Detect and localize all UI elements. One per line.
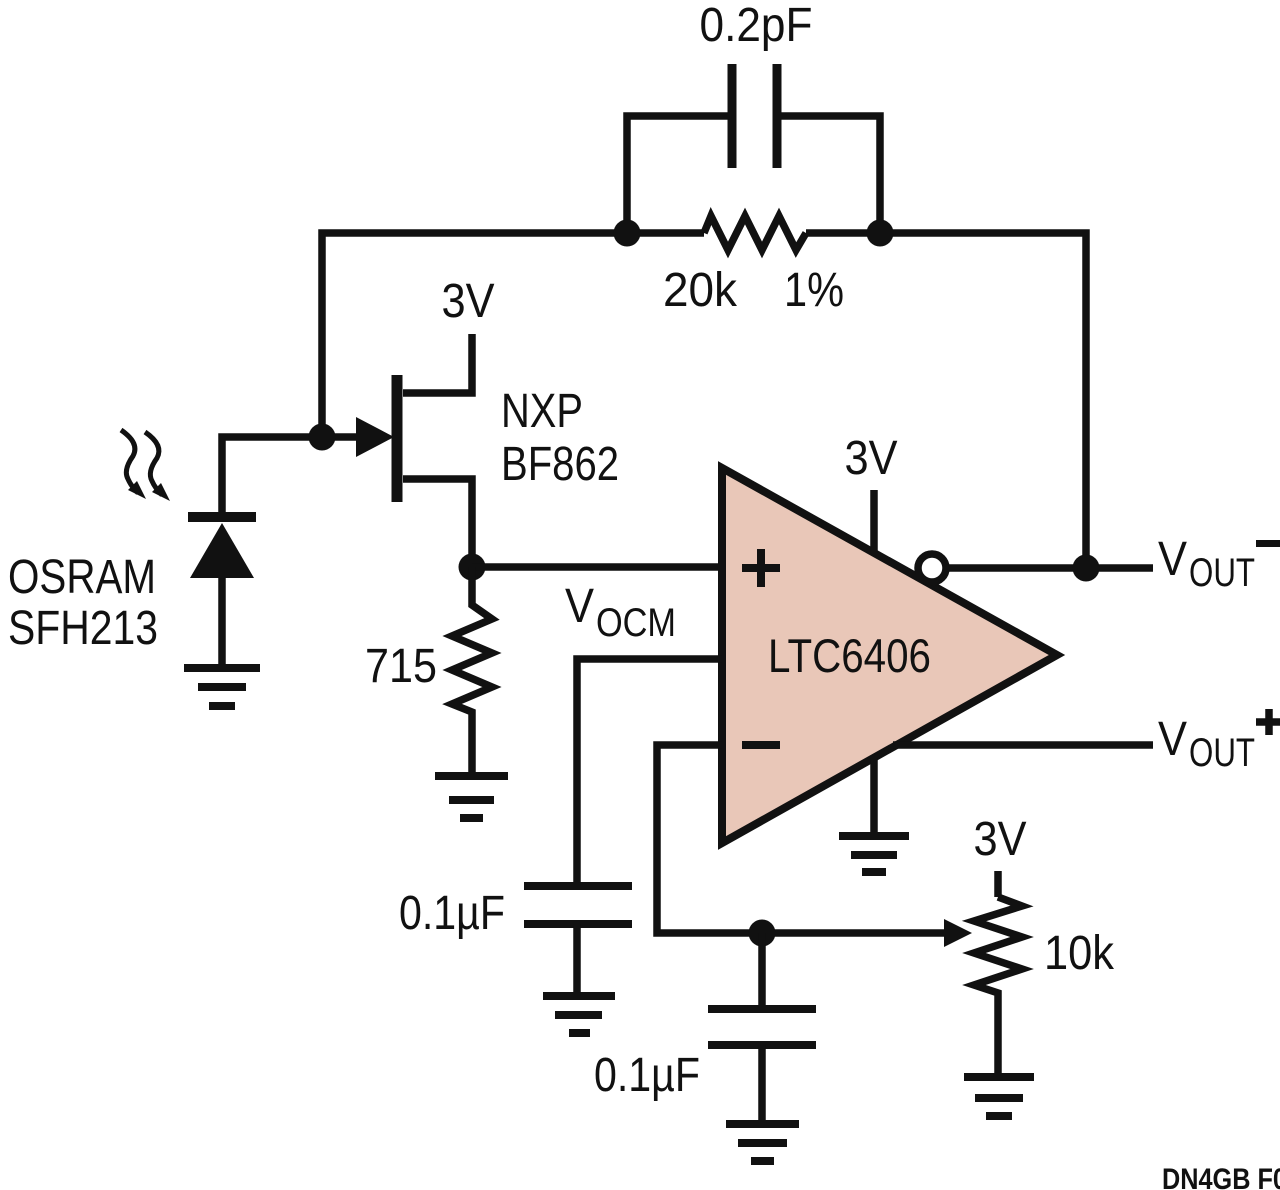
svg-text:DN4GB F03: DN4GB F03 <box>1162 1163 1280 1190</box>
op-amp plus input symbol <box>742 549 780 587</box>
node minus-rail junction dot <box>749 920 776 947</box>
wire 3V to op-amp top <box>870 490 878 553</box>
light arrows into photodiode <box>121 430 162 495</box>
svg-text:V: V <box>1158 713 1187 766</box>
photodiode D1 cathode bar <box>188 512 256 522</box>
op-amp U1 LTC6406 triangle <box>722 468 1057 843</box>
wire 3V to potentiometer <box>994 871 1002 897</box>
node A junction dot left of 20k <box>614 220 641 247</box>
wire feedback loop: gate node up, across top, down to output node <box>322 233 704 437</box>
svg-text:OCM: OCM <box>596 601 676 645</box>
svg-text:BF862: BF862 <box>501 438 619 491</box>
node gate junction dot <box>309 424 336 451</box>
svg-text:3V: 3V <box>845 432 898 485</box>
wire photodiode anode to ground <box>218 578 226 668</box>
capacitor C2 0.1uF plates <box>524 886 632 924</box>
potentiometer R3 10k zigzag <box>974 897 1022 1077</box>
transistor Q1 gate bar <box>392 375 403 502</box>
svg-text:0.1µF: 0.1µF <box>594 1049 700 1102</box>
wire photodiode cathode to gate wire <box>222 437 358 512</box>
node B junction dot right of 20k <box>867 220 894 247</box>
resistor R2 715 zigzag <box>452 567 492 775</box>
node output junction dot <box>1073 555 1100 582</box>
label VOUT+ <box>1158 709 1280 775</box>
wire VOUT+ from op-amp bottom edge <box>893 741 1153 749</box>
ground potentiometer <box>964 1077 1034 1116</box>
wire capacitor branch right <box>780 116 880 233</box>
op-amp output bubble <box>918 554 946 582</box>
wire minus input from below <box>657 745 944 933</box>
svg-text:NXP: NXP <box>501 385 583 438</box>
svg-text:OUT: OUT <box>1189 551 1255 595</box>
label VOCM <box>565 580 676 645</box>
svg-text:715: 715 <box>365 640 437 693</box>
svg-text:0.2pF: 0.2pF <box>700 0 813 52</box>
svg-text:OUT: OUT <box>1189 731 1255 775</box>
svg-text:V: V <box>565 580 594 633</box>
ground capacitor C3 <box>726 1124 799 1161</box>
resistor R1 20k zigzag <box>704 216 806 250</box>
svg-text:10k: 10k <box>1044 927 1115 980</box>
transistor Q1 gate arrow <box>356 417 394 457</box>
wire capacitor branch left <box>627 116 729 233</box>
photodiode D1 triangle <box>190 523 254 578</box>
svg-text:3V: 3V <box>974 813 1027 866</box>
wire top right to output node <box>806 233 1086 568</box>
transistor Q1 source wire down <box>403 479 472 567</box>
op-amp minus input symbol <box>742 741 780 749</box>
svg-text:V: V <box>1158 533 1187 586</box>
wire capacitor C2 to ground <box>573 924 581 996</box>
wire output bubble to VOUT- <box>946 564 1153 572</box>
transistor Q1 drain wire to 3V <box>403 334 472 393</box>
potentiometer wiper arrow <box>944 919 972 947</box>
wire VOCM to op-amp <box>577 659 722 886</box>
capacitor C1 0.2pF plates <box>732 64 777 168</box>
wire capacitor C3 to ground <box>758 1045 766 1124</box>
svg-text:3V: 3V <box>442 275 495 328</box>
node source junction dot <box>459 554 486 581</box>
wire source node to op-amp + input <box>472 563 722 571</box>
capacitor C3 0.1uF plates <box>708 1009 816 1045</box>
svg-text:LTC6406: LTC6406 <box>768 629 931 682</box>
svg-text:0.1µF: 0.1µF <box>399 887 505 940</box>
wire junction to capacitor C3 <box>758 933 766 1009</box>
ground resistor 715 <box>435 776 508 818</box>
svg-text:1%: 1% <box>784 264 844 317</box>
wire op-amp bottom to ground <box>870 758 878 836</box>
ground capacitor C2 <box>543 996 615 1033</box>
svg-text:OSRAM: OSRAM <box>8 551 156 604</box>
svg-text:SFH213: SFH213 <box>8 602 158 655</box>
label VOUT- <box>1158 533 1280 595</box>
ground op-amp <box>839 836 909 872</box>
svg-text:20k: 20k <box>663 264 738 317</box>
ground photodiode <box>184 668 260 706</box>
